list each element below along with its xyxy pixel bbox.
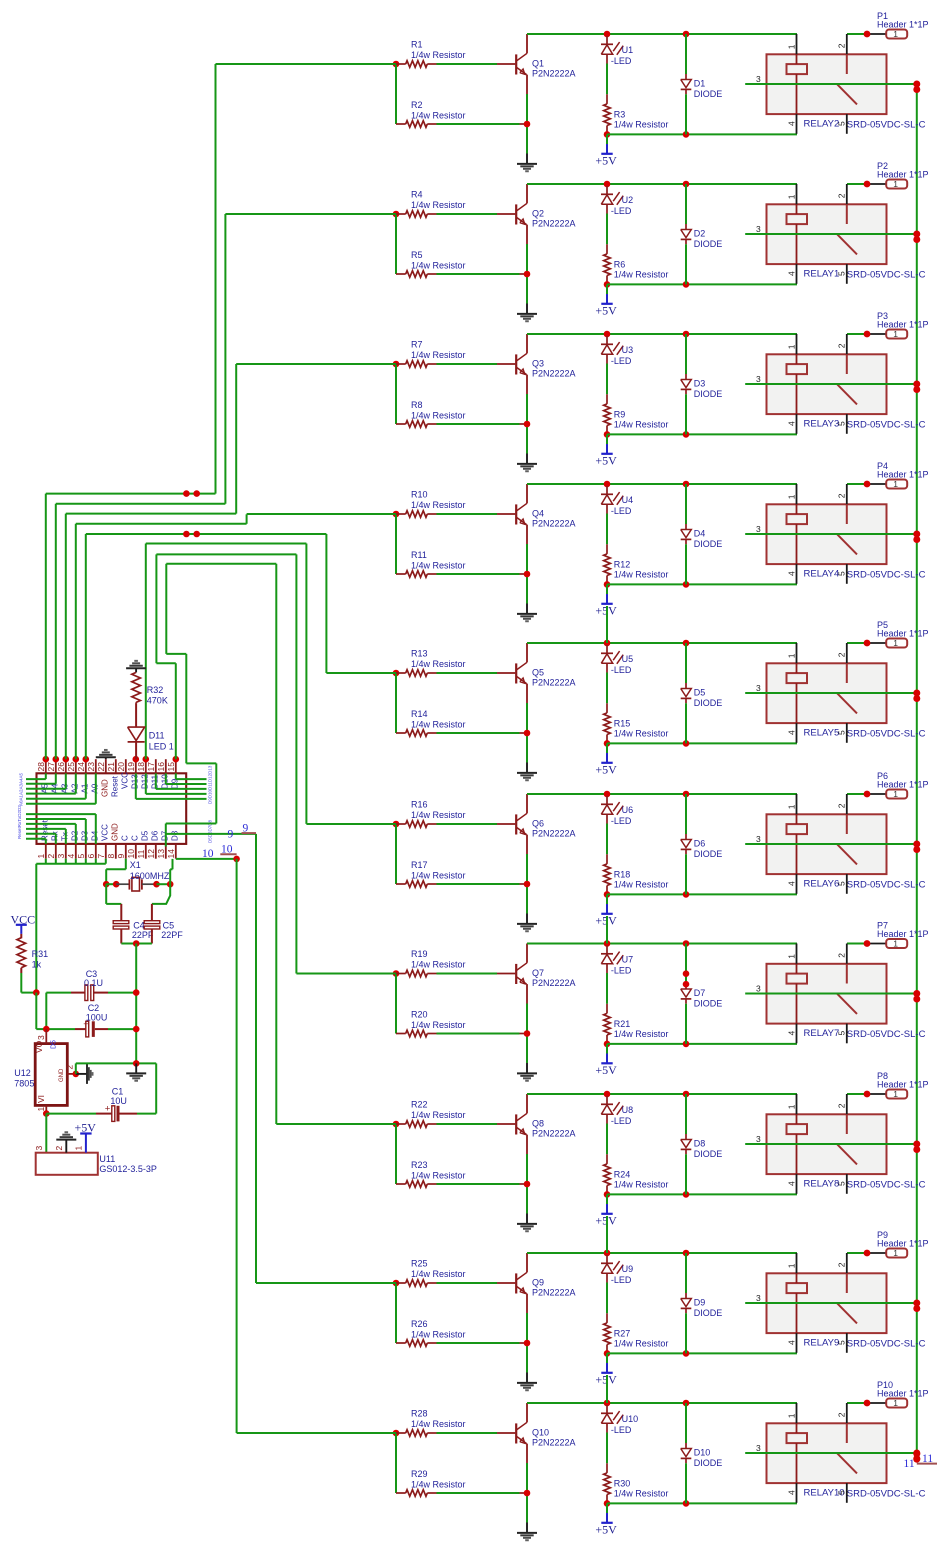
wire ch9 base: [437, 1282, 498, 1284]
node ch8 rail diode tap: [683, 1091, 690, 1098]
svg-text:DIODE: DIODE: [694, 389, 723, 399]
svg-text:Header 1*1P: Header 1*1P: [877, 320, 929, 330]
node ch6 emitter-R17 junction: [524, 881, 531, 888]
relay pin 1 ch9: [796, 1253, 798, 1273]
relay pin 3 wire ch4: [745, 533, 917, 535]
wire net 9 to channel 9: [166, 833, 256, 835]
svg-text:R8: R8: [411, 400, 423, 410]
svg-text:17: 17: [146, 762, 156, 772]
transistor Q5: [497, 672, 515, 674]
svg-text:P2N2222A: P2N2222A: [532, 678, 576, 688]
svg-text:RELAY3: RELAY3: [804, 419, 840, 430]
ground ch9: [526, 1373, 528, 1383]
svg-text:1/4w Resistor: 1/4w Resistor: [411, 659, 466, 669]
relay pin 3 wire ch9: [745, 1302, 917, 1304]
svg-text:Q2: Q2: [532, 208, 544, 218]
svg-text:1: 1: [893, 479, 898, 489]
relay RELAY - RELAY5 SRD-05VDC-SL-C: [767, 663, 887, 723]
wire ch1 LED to R3: [606, 64, 608, 95]
node ch2 R6-+5V junction: [604, 281, 611, 288]
U12 pin 2 GND: [67, 1073, 76, 1075]
node ch8 bus junctions: [913, 1141, 920, 1148]
node ch3 bus junctions: [913, 381, 920, 388]
svg-text:D11: D11: [149, 731, 165, 741]
svg-text:1/4w Resistor: 1/4w Resistor: [411, 500, 466, 510]
wire ch9 collector rail: [527, 1252, 797, 1254]
relay pin 2 ch3: [846, 334, 848, 354]
LED U6: [606, 796, 608, 804]
relay pin 4 ch8: [796, 1174, 798, 1194]
ground ch3: [526, 454, 528, 464]
svg-text:R26: R26: [411, 1319, 428, 1329]
relay pin 4 ch9: [796, 1333, 798, 1353]
svg-text:1/4w Resistor: 1/4w Resistor: [411, 200, 466, 210]
svg-text:SRD-05VDC-SL-C: SRD-05VDC-SL-C: [847, 1489, 926, 1500]
wire ch2 input vertical: [395, 214, 397, 274]
node ch4 rail LED tap: [604, 481, 611, 488]
node ch7 R21-+5V junction: [604, 1041, 611, 1048]
svg-text:P2N2222A: P2N2222A: [532, 1438, 576, 1448]
svg-text:DIODE: DIODE: [694, 998, 723, 1008]
label +5V ch6: [601, 913, 612, 915]
svg-text:D7: D7: [694, 988, 706, 998]
svg-text:4: 4: [786, 881, 796, 886]
wire ch3 base: [437, 363, 498, 365]
wire ch5 LED to R15: [606, 673, 608, 704]
svg-text:P2N2222A: P2N2222A: [532, 829, 576, 839]
svg-text:VI: VI: [36, 1095, 46, 1103]
svg-text:1: 1: [786, 1104, 796, 1109]
node ch4 header junction: [864, 481, 871, 488]
svg-text:0.1U: 0.1U: [84, 978, 103, 988]
svg-text:1/4w Resistor: 1/4w Resistor: [614, 120, 669, 130]
relay pin 2 ch1: [846, 34, 848, 54]
svg-text:1/4w Resistor: 1/4w Resistor: [411, 719, 466, 729]
svg-text:1/4w Resistor: 1/4w Resistor: [411, 1020, 466, 1030]
svg-text:U5: U5: [622, 654, 634, 664]
power +5V ch6: [606, 894, 608, 904]
node ch3 R9-+5V junction: [604, 431, 611, 438]
wire ch9 input vertical: [395, 1283, 397, 1343]
node ch2 bus junctions: [913, 231, 920, 238]
resistor R26: [396, 1342, 406, 1344]
capacitor C3 0.1U: [46, 992, 71, 994]
svg-text:+5V: +5V: [595, 303, 617, 317]
svg-text:R31: R31: [32, 949, 49, 959]
svg-text:2: 2: [837, 652, 847, 657]
IC U13 ATmega328 28-pin body: [37, 773, 187, 844]
svg-text:1/4w Resistor: 1/4w Resistor: [411, 260, 466, 270]
power +5V ch5: [606, 743, 608, 753]
svg-text:Q6: Q6: [532, 818, 544, 828]
svg-text:9: 9: [116, 854, 126, 859]
wire ch6 LED to R18: [606, 824, 608, 855]
svg-text:+5V: +5V: [595, 1522, 617, 1536]
transistor Q8: [497, 1123, 515, 1125]
svg-text:-LED: -LED: [611, 1425, 632, 1435]
svg-text:SRD-05VDC-SL-C: SRD-05VDC-SL-C: [847, 1180, 926, 1191]
wire ch3 LED to R9: [606, 364, 608, 395]
svg-text:1/4w Resistor: 1/4w Resistor: [411, 1269, 466, 1279]
relay pin 4 ch5: [796, 723, 798, 743]
header P5 Header 1*1P: [867, 642, 886, 644]
svg-text:ResetRxTxD2D3: ResetRxTxD2D3: [17, 805, 22, 839]
wire ch2 LED to R6: [606, 214, 608, 245]
svg-text:25: 25: [66, 762, 76, 772]
svg-text:R12: R12: [614, 559, 631, 569]
ground ch4: [526, 604, 528, 614]
node ch6 header junction: [864, 791, 871, 798]
diode D6: [685, 794, 687, 834]
svg-text:U6: U6: [622, 805, 634, 815]
svg-text:24: 24: [76, 762, 86, 772]
svg-text:R7: R7: [411, 340, 423, 350]
svg-text:1: 1: [893, 789, 898, 799]
svg-text:1: 1: [786, 653, 796, 658]
wire ch4 emitter to ground: [526, 544, 528, 604]
wire ch7 base: [437, 973, 498, 975]
relay coil to pin 4 ch3: [796, 374, 798, 414]
power +5V ch10: [606, 1503, 608, 1513]
svg-text:Header 1*1P: Header 1*1P: [877, 1389, 929, 1399]
node ch2 emitter-R5 junction: [524, 271, 531, 278]
IC inner left stub wires A5-A0: [45, 773, 47, 779]
svg-text:1600MHZ: 1600MHZ: [130, 871, 170, 881]
svg-text:R9: R9: [614, 409, 626, 419]
wire ch8 base: [437, 1123, 498, 1125]
svg-text:4: 4: [786, 1490, 796, 1495]
svg-text:3: 3: [756, 834, 761, 844]
resistor R6: [606, 244, 608, 254]
wire ch3 collector rail: [527, 333, 797, 335]
node ch4 bus junctions: [913, 531, 920, 538]
relay RELAY - RELAY7 SRD-05VDC-SL-C: [767, 964, 887, 1024]
svg-text:5: 5: [837, 1490, 847, 1495]
wire ch1 emitter to ground: [526, 94, 528, 154]
resistor R19: [396, 973, 406, 975]
ground above R32: [126, 667, 146, 669]
wire ch1 R2 to emitter: [437, 123, 520, 125]
svg-text:C: C: [130, 835, 139, 841]
svg-text:R27: R27: [614, 1328, 631, 1338]
relay pin 5 ch9: [846, 1333, 848, 1353]
wire ch10 input vertical: [395, 1433, 397, 1493]
resistor R10: [396, 513, 406, 515]
node ch5 rail diode tap: [683, 640, 690, 647]
svg-text:R32: R32: [147, 685, 164, 695]
node ch6 rail LED tap: [604, 791, 611, 798]
wire caps common to ground column: [121, 943, 152, 945]
node ch4 rail diode tap: [683, 481, 690, 488]
svg-text:1/4w Resistor: 1/4w Resistor: [411, 410, 466, 420]
header P2 Header 1*1P: [867, 183, 886, 185]
resistor R17: [396, 883, 406, 885]
node ch9 rail LED tap: [604, 1250, 611, 1257]
svg-text:1/4w Resistor: 1/4w Resistor: [614, 1489, 669, 1499]
power +5V ch1: [606, 134, 608, 144]
svg-text:23: 23: [86, 762, 96, 772]
svg-text:VO: VO: [34, 1040, 44, 1053]
svg-text:GND: GND: [110, 823, 119, 841]
svg-text:3: 3: [756, 74, 761, 84]
node ch6 bottom diode junction: [683, 891, 690, 898]
node ch9 header junction: [864, 1250, 871, 1257]
svg-text:P2N2222A: P2N2222A: [532, 1288, 576, 1298]
wire ch5 collector rail: [527, 642, 797, 644]
relay pin 3 wire ch7: [745, 993, 917, 995]
svg-text:R13: R13: [411, 649, 428, 659]
diode D11 LED 1: [135, 704, 137, 727]
header P1 Header 1*1P: [867, 33, 886, 35]
relay pin 3 wire ch3: [745, 383, 917, 385]
ground ch6: [526, 914, 528, 924]
relay coil to pin 4 ch7: [796, 984, 798, 1024]
relay RELAY - RELAY6 SRD-05VDC-SL-C: [767, 814, 887, 874]
svg-text:1: 1: [786, 804, 796, 809]
node ch9 bottom diode junction: [683, 1350, 690, 1357]
wire ch3 input horizontal from MCU: [236, 363, 396, 365]
svg-text:DIODE: DIODE: [694, 89, 723, 99]
LED U9: [606, 1255, 608, 1263]
resistor R4: [396, 213, 406, 215]
svg-text:5: 5: [837, 271, 847, 276]
wire ch8 emitter to ground: [526, 1154, 528, 1214]
svg-text:Header 1*1P: Header 1*1P: [877, 470, 929, 480]
svg-text:RELAY9: RELAY9: [804, 1338, 840, 1349]
svg-text:1: 1: [893, 1248, 898, 1258]
resistor R18: [606, 854, 608, 864]
wire ch3 input vertical: [395, 364, 397, 424]
node ch6 R18-+5V junction: [604, 891, 611, 898]
wire ch5 emitter to ground: [526, 703, 528, 763]
relay pin 4 ch4: [796, 564, 798, 584]
svg-text:RELAY1: RELAY1: [804, 269, 840, 280]
svg-text:5: 5: [837, 121, 847, 126]
wire net A5 to channel 1: [45, 494, 47, 760]
relay pin 3 wire ch1: [745, 83, 917, 85]
svg-text:1/4w Resistor: 1/4w Resistor: [411, 1110, 466, 1120]
svg-text:5: 5: [837, 1181, 847, 1186]
svg-text:A0A1A2A3A4A5: A0A1A2A3A4A5: [19, 772, 24, 806]
resistor R23: [396, 1183, 406, 1185]
svg-text:1/4w Resistor: 1/4w Resistor: [614, 880, 669, 890]
svg-text:1: 1: [36, 1107, 46, 1112]
svg-text:1/4w Resistor: 1/4w Resistor: [411, 1479, 466, 1489]
ground IC pin 22: [105, 758, 107, 760]
node ch9 R27-+5V junction: [604, 1350, 611, 1357]
relay coil to pin 4 ch1: [796, 74, 798, 114]
wire ch10 R29 to emitter: [437, 1492, 520, 1494]
wire ch10 input horizontal from MCU: [237, 1432, 396, 1434]
svg-text:4: 4: [786, 1340, 796, 1345]
node ch9 emitter-R26 junction: [524, 1340, 531, 1347]
wire crystal right to pin14 riser: [169, 869, 171, 884]
svg-text:D1: D1: [694, 78, 706, 88]
svg-text:D8: D8: [694, 1138, 706, 1148]
net flag 10: [220, 853, 236, 855]
svg-text:U9: U9: [622, 1264, 634, 1274]
node route dots: [183, 490, 190, 497]
diode D8: [685, 1094, 687, 1134]
header P4 Header 1*1P: [867, 483, 886, 485]
svg-text:DIODE: DIODE: [694, 1149, 723, 1159]
svg-text:22PF: 22PF: [132, 930, 154, 940]
svg-text:4: 4: [786, 271, 796, 276]
wire ch9 diode to bottom rail: [685, 1313, 687, 1353]
svg-text:1: 1: [893, 179, 898, 189]
svg-text:3: 3: [756, 1443, 761, 1453]
header P6 Header 1*1P: [867, 793, 886, 795]
node channel 6 input: [393, 821, 400, 828]
relay pin 5 ch1: [846, 114, 848, 134]
svg-text:GND: GND: [100, 779, 109, 797]
svg-text:SRD-05VDC-SL-C: SRD-05VDC-SL-C: [847, 729, 926, 740]
svg-text:+5V: +5V: [595, 153, 617, 167]
svg-text:-LED: -LED: [611, 665, 632, 675]
svg-text:3: 3: [756, 1134, 761, 1144]
wire ch5 diode to bottom rail: [685, 703, 687, 743]
wire ch8 collector rail: [527, 1093, 797, 1095]
svg-text:2: 2: [46, 854, 56, 859]
svg-text:11: 11: [922, 1453, 933, 1465]
svg-text:10: 10: [202, 848, 214, 860]
svg-text:Q5: Q5: [532, 667, 544, 677]
node ch7 rail LED tap: [604, 940, 611, 947]
power +5V ch7: [606, 1044, 608, 1054]
relay pin 5 ch6: [846, 874, 848, 894]
svg-text:+5V: +5V: [595, 453, 617, 467]
wire ch5 bottom rail: [607, 742, 797, 744]
wire ch1 collector rail: [527, 33, 797, 35]
svg-text:1/4w Resistor: 1/4w Resistor: [614, 1029, 669, 1039]
wire +5V column pass-through: [606, 1216, 608, 1253]
svg-text:-LED: -LED: [611, 1116, 632, 1126]
wire ch9 bottom rail: [607, 1352, 797, 1354]
svg-text:10: 10: [221, 843, 233, 855]
relay RELAY - RELAY1 SRD-05VDC-SL-C: [767, 204, 887, 264]
diode D1: [685, 34, 687, 74]
svg-text:DIODE: DIODE: [694, 849, 723, 859]
svg-text:3: 3: [56, 854, 66, 859]
wire reset node down to VO: [35, 993, 37, 1030]
resistor R15: [606, 703, 608, 713]
relay pin 5 ch8: [846, 1174, 848, 1194]
wire +5V column pass-through: [606, 1375, 608, 1403]
svg-text:C: C: [120, 835, 129, 841]
svg-text:3: 3: [756, 374, 761, 384]
wire ch2 input horizontal from MCU: [225, 213, 396, 215]
node extra junction above D7: [683, 970, 690, 977]
node ch7 bottom diode junction: [683, 1041, 690, 1048]
svg-text:9: 9: [243, 822, 249, 834]
U11 pin 1 +5V: [85, 1134, 87, 1153]
svg-text:4: 4: [66, 854, 76, 859]
svg-text:1: 1: [36, 854, 46, 859]
wire ch5 R14 to emitter: [437, 732, 520, 734]
svg-text:RELAY6: RELAY6: [804, 879, 840, 890]
label +5V ch3: [601, 453, 612, 455]
svg-text:Header 1*1P: Header 1*1P: [877, 780, 929, 790]
relay pin 5 ch4: [846, 564, 848, 584]
wire ch8 R23 to emitter: [437, 1183, 520, 1185]
node ch5 emitter-R14 junction: [524, 730, 531, 737]
svg-text:15: 15: [166, 762, 176, 772]
svg-text:4: 4: [786, 1031, 796, 1036]
wire ch9 LED to R27: [606, 1283, 608, 1314]
wire ch4 R11 to emitter: [437, 573, 520, 575]
svg-text:10U: 10U: [110, 1096, 127, 1106]
svg-text:1: 1: [786, 1413, 796, 1418]
label +5V ch7: [601, 1062, 612, 1064]
relay pin 1 ch8: [796, 1094, 798, 1114]
svg-text:R2: R2: [411, 100, 423, 110]
svg-text:22: 22: [96, 762, 106, 772]
U11 pin 2 ground: [65, 1140, 67, 1153]
svg-text:7: 7: [96, 854, 106, 859]
svg-text:+5V: +5V: [75, 1121, 97, 1135]
node ch10 emitter-R29 junction: [524, 1490, 531, 1497]
capacitor C1 10U: [46, 1113, 96, 1115]
relay pin 3 wire ch10: [745, 1452, 917, 1454]
svg-text:P2N2222A: P2N2222A: [532, 69, 576, 79]
node ch1 rail LED tap: [604, 31, 611, 38]
node ch10 rail LED tap: [604, 1400, 611, 1407]
node channel 1 input: [393, 61, 400, 68]
svg-text:Header 1*1P: Header 1*1P: [877, 1080, 929, 1090]
svg-text:Header 1*1P: Header 1*1P: [877, 929, 929, 939]
crystal X1 1600MHZ: [103, 881, 110, 888]
LED U8: [606, 1096, 608, 1104]
svg-text:26: 26: [56, 762, 66, 772]
svg-text:1/4w Resistor: 1/4w Resistor: [614, 1180, 669, 1190]
wire ch2 R5 to emitter: [437, 273, 520, 275]
node ch1 rail diode tap: [683, 31, 690, 38]
ground U12 pin2 rotated: [76, 1073, 87, 1075]
transistor Q10: [497, 1432, 515, 1434]
power +5V ch8: [606, 1194, 608, 1204]
ground ch1: [526, 154, 528, 164]
svg-text:1/4w Resistor: 1/4w Resistor: [411, 350, 466, 360]
resistor R8: [396, 423, 406, 425]
node ch4 emitter-R11 junction: [524, 571, 531, 578]
wire ch7 emitter to ground: [526, 1004, 528, 1064]
resistor R29: [396, 1492, 406, 1494]
svg-text:22PF: 22PF: [161, 930, 183, 940]
svg-text:D8: D8: [170, 830, 179, 841]
diode D10: [685, 1403, 687, 1443]
relay pin 2 ch10: [846, 1403, 848, 1423]
capacitor C4 22PF: [120, 904, 122, 921]
wire ch6 bottom rail: [607, 893, 797, 895]
svg-text:2: 2: [65, 1065, 75, 1070]
ground ch5: [526, 763, 528, 773]
node ch3 header junction: [864, 331, 871, 338]
svg-text:R20: R20: [411, 1010, 428, 1020]
ground ch7: [526, 1063, 528, 1073]
node ch5 bottom diode junction: [683, 740, 690, 747]
node ch3 bottom diode junction: [683, 431, 690, 438]
svg-text:U4: U4: [622, 495, 634, 505]
LED U1: [606, 36, 608, 44]
svg-text:RELAY4: RELAY4: [804, 569, 840, 580]
svg-text:1/4w Resistor: 1/4w Resistor: [411, 960, 466, 970]
ground ch8: [526, 1214, 528, 1224]
node ch2 header junction: [864, 181, 871, 188]
node channel 9 input: [393, 1280, 400, 1287]
svg-text:1/4w Resistor: 1/4w Resistor: [614, 270, 669, 280]
svg-text:4: 4: [786, 730, 796, 735]
wire main ground column: [135, 944, 137, 1064]
